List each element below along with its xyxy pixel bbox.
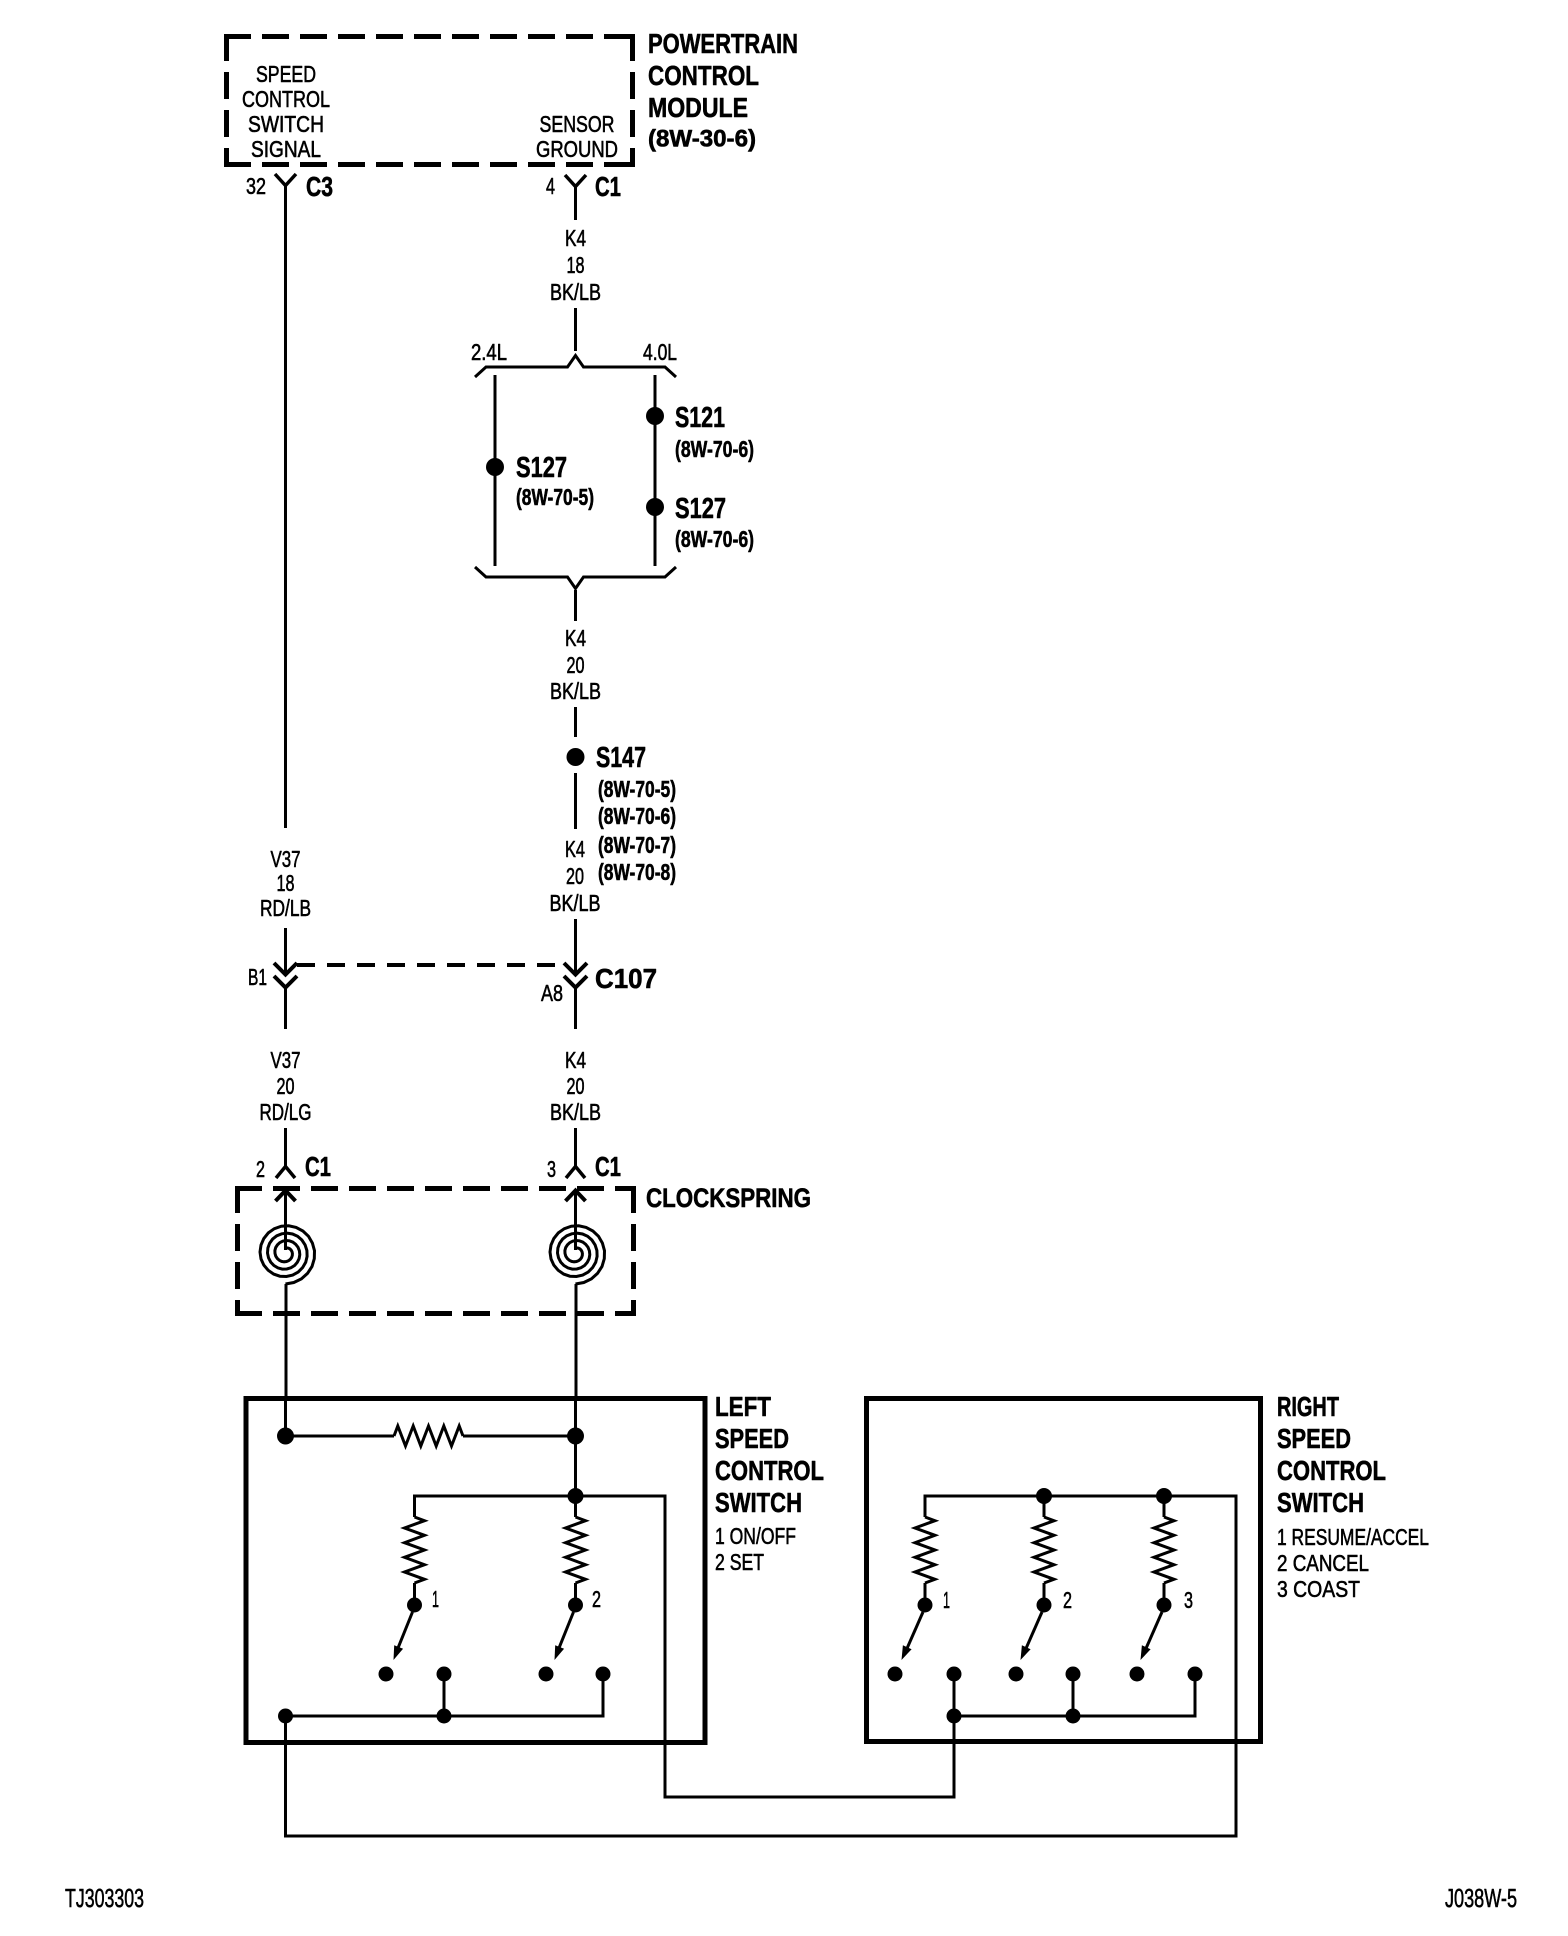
connector C1 pin 4 (PCM) <box>565 175 586 187</box>
svg-text:32: 32 <box>246 173 266 199</box>
wire into left switch (left) <box>284 1398 287 1436</box>
contact dots right switch <box>888 1667 903 1682</box>
connector A8 (C107 right) <box>564 963 587 975</box>
svg-text:(8W-70-5): (8W-70-5) <box>516 484 594 510</box>
switch arm 1 <box>905 1612 923 1653</box>
clockspring coil (right) <box>550 1226 605 1284</box>
svg-text:18: 18 <box>567 252 585 278</box>
splice S127 (4.0L) <box>646 498 664 516</box>
connector B1 (C107 left) <box>274 963 297 975</box>
wire <box>574 308 577 351</box>
svg-text:(8W-30-6): (8W-30-6) <box>648 126 756 153</box>
svg-text:SWITCH: SWITCH <box>248 111 324 137</box>
svg-text:CONTROL: CONTROL <box>242 86 330 112</box>
wire below S147 <box>574 773 577 829</box>
svg-text:LEFT: LEFT <box>715 1391 771 1422</box>
svg-text:BK/LB: BK/LB <box>550 890 601 916</box>
svg-text:1: 1 <box>432 1586 439 1612</box>
svg-text:3: 3 <box>547 1156 556 1182</box>
svg-text:2.4L: 2.4L <box>471 339 507 365</box>
wire V37 upper segment from C3 <box>284 186 287 829</box>
wire <box>574 707 577 737</box>
svg-text:4.0L: 4.0L <box>643 339 677 365</box>
connector C107 dashed link line <box>297 963 564 967</box>
merge brace (bottom) <box>475 567 676 589</box>
svg-text:2: 2 <box>1063 1587 1072 1613</box>
svg-text:20: 20 <box>566 863 584 889</box>
powertrain control module box (dashed) <box>224 34 635 39</box>
svg-text:C1: C1 <box>595 171 621 202</box>
svg-text:RD/LG: RD/LG <box>260 1099 312 1125</box>
svg-text:POWERTRAIN: POWERTRAIN <box>648 28 798 59</box>
wire below merge <box>574 590 577 621</box>
node left <box>277 1428 294 1445</box>
svg-text:SPEED: SPEED <box>256 61 316 87</box>
svg-text:2: 2 <box>256 1156 265 1182</box>
svg-text:RIGHT: RIGHT <box>1277 1391 1339 1422</box>
svg-text:K4: K4 <box>565 625 586 651</box>
arrow into clockspring (left) <box>276 1191 296 1202</box>
switch arm 3 <box>1144 1612 1162 1653</box>
svg-text:A8: A8 <box>541 980 563 1006</box>
connector C1 pin 2 (clockspring) <box>276 1167 295 1179</box>
svg-text:2 CANCEL: 2 CANCEL <box>1277 1550 1369 1576</box>
svg-text:TJ303303: TJ303303 <box>65 1883 144 1913</box>
svg-text:MODULE: MODULE <box>648 92 748 123</box>
svg-text:S127: S127 <box>675 493 726 525</box>
splice S121 (4.0L) <box>646 407 664 425</box>
svg-text:GROUND: GROUND <box>536 136 618 162</box>
svg-text:C3: C3 <box>306 171 333 202</box>
right switch top rail <box>925 1496 1236 1836</box>
wire V37 20 RD/LG <box>284 988 287 1029</box>
wire <box>574 919 577 972</box>
svg-text:K4: K4 <box>565 1047 586 1073</box>
svg-text:SWITCH: SWITCH <box>1277 1487 1364 1518</box>
svg-text:S121: S121 <box>675 402 725 434</box>
svg-text:(8W-70-5): (8W-70-5) <box>598 776 676 802</box>
splice S147 <box>567 748 585 766</box>
svg-text:RD/LB: RD/LB <box>260 895 311 921</box>
clockspring coil (left) <box>260 1226 315 1284</box>
split brace (top) <box>475 356 676 378</box>
svg-text:SIGNAL: SIGNAL <box>251 136 321 162</box>
svg-text:CLOCKSPRING: CLOCKSPRING <box>646 1183 811 1213</box>
resistor switch 1 (ON/OFF) <box>405 1517 425 1583</box>
svg-text:(8W-70-7): (8W-70-7) <box>598 832 676 858</box>
wire into left switch (right) <box>574 1398 577 1436</box>
svg-text:J038W-5: J038W-5 <box>1445 1883 1517 1913</box>
contact interconnect wires <box>953 1674 956 1716</box>
svg-text:(8W-70-6): (8W-70-6) <box>598 803 676 829</box>
2.4L branch wire <box>494 375 497 566</box>
svg-text:(8W-70-6): (8W-70-6) <box>675 526 754 552</box>
wire down to switch rail <box>574 1436 577 1496</box>
resistor switch 2 (CANCEL) <box>1043 1496 1046 1517</box>
left speed control switch box <box>246 1399 705 1743</box>
svg-text:SENSOR: SENSOR <box>540 111 615 137</box>
svg-text:20: 20 <box>567 1073 585 1099</box>
right speed control switch box <box>867 1399 1261 1742</box>
svg-text:SPEED: SPEED <box>715 1423 789 1454</box>
connector C3 pin 32 (PCM) <box>275 174 296 186</box>
svg-text:20: 20 <box>277 1073 295 1099</box>
svg-text:2 SET: 2 SET <box>715 1549 764 1575</box>
svg-text:SWITCH: SWITCH <box>715 1487 802 1518</box>
switch arm 2 <box>557 1612 574 1653</box>
connector C1 pin 3 (clockspring) <box>566 1167 585 1179</box>
svg-text:4: 4 <box>546 173 555 199</box>
svg-text:2: 2 <box>592 1586 601 1612</box>
svg-text:BK/LB: BK/LB <box>550 678 601 704</box>
wire left switch common down and across to right box <box>286 1716 1237 1836</box>
svg-text:CONTROL: CONTROL <box>715 1455 824 1486</box>
svg-text:1 RESUME/ACCEL: 1 RESUME/ACCEL <box>1277 1524 1429 1550</box>
clockspring box (dashed) <box>235 1186 636 1191</box>
wire K4 18 BK/LB from C1 <box>574 187 577 221</box>
svg-text:3 COAST: 3 COAST <box>1277 1576 1360 1602</box>
arrow into clockspring (right) <box>566 1191 586 1202</box>
wire <box>284 928 287 972</box>
contact dots left switch <box>379 1667 394 1682</box>
resistor switch 3 (COAST) <box>1163 1496 1166 1517</box>
contact interconnect wires <box>443 1674 446 1716</box>
svg-text:BK/LB: BK/LB <box>550 1099 601 1125</box>
svg-text:B1: B1 <box>248 964 267 990</box>
svg-text:CONTROL: CONTROL <box>1277 1455 1386 1486</box>
switch arm 2 <box>1024 1612 1042 1653</box>
left switch rail and route to right box <box>415 1496 955 1797</box>
resistor switch 1 (RESUME/ACCEL) <box>915 1517 935 1583</box>
node rail <box>568 1488 584 1504</box>
resistor between switch inputs <box>286 1435 395 1438</box>
svg-text:CONTROL: CONTROL <box>648 60 759 91</box>
svg-text:BK/LB: BK/LB <box>550 279 601 305</box>
svg-text:K4: K4 <box>565 225 586 251</box>
switch arm 1 <box>396 1612 413 1653</box>
splice S127 (2.4L) <box>486 458 504 476</box>
svg-text:S147: S147 <box>596 742 646 774</box>
wire K4 20 BK/LB to clockspring <box>574 988 577 1029</box>
svg-text:(8W-70-6): (8W-70-6) <box>675 436 754 462</box>
svg-text:K4: K4 <box>565 836 585 862</box>
svg-text:1 ON/OFF: 1 ON/OFF <box>715 1523 796 1549</box>
svg-text:18: 18 <box>277 870 295 896</box>
4.0L branch wire <box>654 375 657 566</box>
svg-text:1: 1 <box>943 1587 950 1613</box>
svg-text:3: 3 <box>1184 1587 1193 1613</box>
svg-text:C107: C107 <box>595 963 657 994</box>
svg-text:V37: V37 <box>271 1047 301 1073</box>
svg-text:SPEED: SPEED <box>1277 1423 1351 1454</box>
resistor switch 2 (SET) <box>574 1496 577 1517</box>
svg-text:(8W-70-8): (8W-70-8) <box>598 859 676 885</box>
svg-text:S127: S127 <box>516 452 567 484</box>
svg-text:20: 20 <box>567 652 585 678</box>
svg-text:C1: C1 <box>595 1151 621 1182</box>
node right <box>567 1428 584 1445</box>
svg-text:C1: C1 <box>305 1151 331 1182</box>
svg-text:V37: V37 <box>271 846 301 872</box>
